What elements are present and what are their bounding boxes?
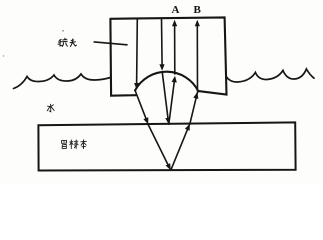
- ray from arc peak to sample surface: [162, 73, 168, 121]
- ray L2 down inside lens to arc peak: [161, 19, 164, 67]
- lens body rectangle (transducer + lens housing): [110, 17, 226, 95]
- lens curved surface arc: [135, 72, 198, 92]
- svg-text:B: B: [194, 4, 202, 16]
- label pointer line for lens: [94, 42, 127, 45]
- bone sample rectangle: [38, 122, 295, 170]
- left water wavy line: [14, 74, 111, 89]
- right water wavy line: [226, 69, 314, 82]
- arrowhead at sample surface left: [143, 117, 148, 124]
- arrowhead ray B top: [195, 20, 200, 27]
- ray from arc left end to sample surface: [135, 91, 147, 121]
- arrowhead L1 tip at arc left end: [134, 83, 139, 90]
- arrowhead at V vertex: [166, 163, 171, 170]
- arrowhead L2 tip at arc peak: [159, 64, 164, 71]
- arrowhead at arc right end: [193, 92, 198, 99]
- arrowhead V right branch below surface: [185, 124, 190, 131]
- arrowhead ray A under arc: [172, 76, 177, 83]
- ray B above surface to arc right end: [190, 93, 197, 123]
- ray V right branch in sample (to B): [171, 124, 190, 170]
- label 水 (water) hand strokes: [47, 104, 54, 112]
- arrowhead ray A top: [172, 20, 177, 27]
- faint scan speck: [3, 55, 4, 56]
- ray V left branch in sample: [148, 125, 168, 166]
- svg-text:A: A: [172, 4, 180, 16]
- ray B vertical inside lens: [196, 24, 198, 92]
- ray A vertical inside lens: [174, 24, 176, 75]
- label 镜头 (lens) hand strokes: [58, 38, 76, 46]
- arrowhead at sample surface middle: [165, 117, 170, 124]
- ray A below arc (surface echo up): [169, 82, 175, 125]
- label 骨样本 (bone sample) hand strokes: [62, 140, 87, 149]
- ray L1 down inside lens: [136, 19, 139, 86]
